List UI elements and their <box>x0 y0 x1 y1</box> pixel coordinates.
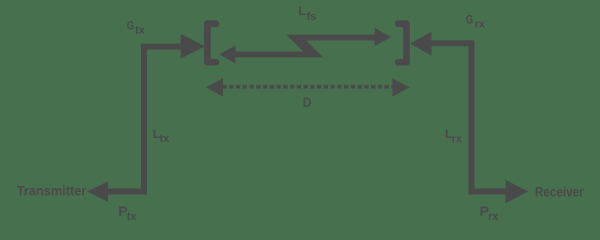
svg-text:tx: tx <box>160 133 170 145</box>
L_fs left arrowhead <box>219 45 235 63</box>
D left arrowhead <box>206 78 223 96</box>
D right arrowhead <box>393 78 410 96</box>
svg-text:rx: rx <box>452 133 462 145</box>
arrowhead into Transmitter <box>87 181 108 202</box>
L_fs zigzag wire between brackets <box>235 35 375 58</box>
svg-text:tx: tx <box>135 25 145 37</box>
svg-text:rx: rx <box>488 211 498 223</box>
wire: transmitter shaft + left riser + top shaft (P_tx to G_tx path) <box>107 47 182 192</box>
svg-text:Receiver: Receiver <box>535 185 584 201</box>
wire: right top shaft + right riser + receiver shaft <box>431 43 506 191</box>
left bracket [ <box>207 24 216 63</box>
svg-text:rx: rx <box>475 19 485 31</box>
svg-text:tx: tx <box>127 211 137 223</box>
svg-text:L: L <box>298 4 305 18</box>
arrowhead G_rx into right bracket <box>410 32 431 56</box>
svg-text:G: G <box>127 18 134 32</box>
arrowhead into Receiver <box>506 180 529 203</box>
svg-text:G: G <box>466 12 474 26</box>
svg-text:Transmitter: Transmitter <box>17 184 87 200</box>
svg-text:D: D <box>303 95 312 111</box>
svg-text:fs: fs <box>307 11 317 23</box>
arrowhead G_tx into left bracket <box>181 34 205 59</box>
right bracket ] <box>398 24 407 63</box>
D dotted wire <box>223 85 393 89</box>
L_fs right arrowhead <box>375 28 391 46</box>
